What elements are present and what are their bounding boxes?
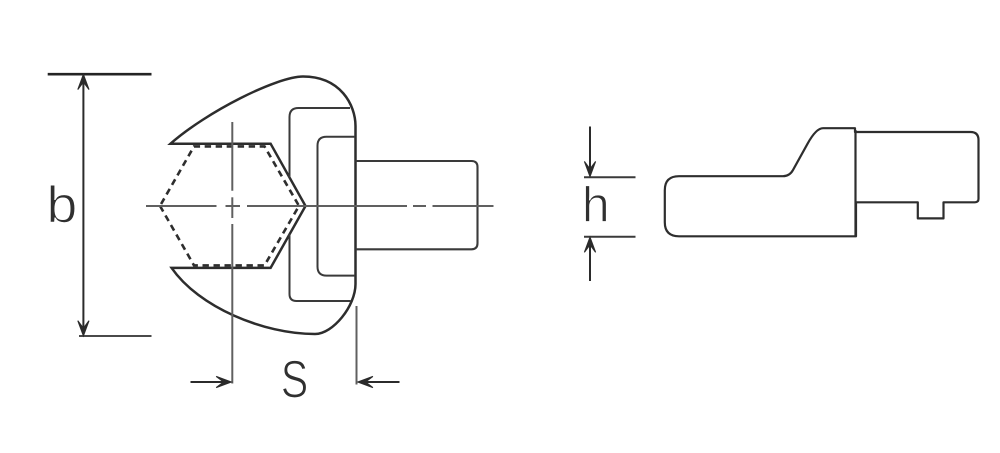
dimension b: bottom tick: [79, 335, 152, 337]
inner drive hole rounded rect: [318, 137, 356, 276]
wrench head outline: [171, 77, 356, 335]
label h: [585, 186, 606, 222]
dimension S: right extension line: [356, 306, 358, 385]
dimension h: upper tick: [584, 176, 636, 178]
dimension b: arrowhead up: [78, 75, 89, 90]
hex nut (dashed): [160, 146, 299, 265]
dimension h: up arrow: [589, 242, 591, 281]
dimension S: left arrow: [191, 381, 227, 383]
dimension S: right arrow: [363, 381, 400, 383]
dimension h: lower tick: [584, 236, 636, 238]
side view outline: [665, 128, 979, 236]
dimension b: top tick: [48, 73, 152, 76]
tang shaft rectangle: [356, 161, 478, 249]
vertical centerline: [231, 122, 233, 384]
outer slot window (partially hidden by mouth): [290, 108, 351, 178]
horizontal centerline: [146, 205, 494, 207]
dimension b: arrowhead down: [78, 321, 89, 336]
dimension b: arrow line: [82, 76, 84, 334]
label S: [283, 360, 307, 398]
dimension h: down arrow: [589, 127, 591, 173]
internal edge between neck and body: [854, 130, 856, 236]
label b: [50, 185, 75, 223]
